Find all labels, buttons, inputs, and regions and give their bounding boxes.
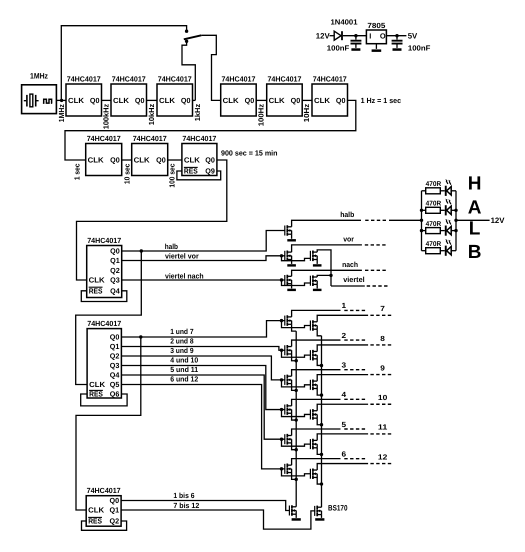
svg-text:RES: RES: [184, 167, 198, 176]
label nach (line): [342, 260, 358, 269]
wire U10 Q3 viertel-nach: [122, 279, 286, 281]
ground (C2): [393, 48, 402, 51]
svg-text:1kHz: 1kHz: [193, 104, 202, 122]
wire Q19 source: [321, 515, 323, 518]
svg-text:9: 9: [380, 363, 385, 372]
svg-text:8: 8: [380, 334, 385, 343]
counter U6 74HC4017: [312, 74, 348, 116]
node left rail pair 2: [295, 359, 298, 362]
svg-text:Q1: Q1: [110, 342, 120, 351]
svg-text:vor: vor: [343, 234, 354, 243]
wire LED right rail: [455, 191, 457, 251]
transistor Q19 BS170 (7 bis 12): [315, 506, 322, 517]
wire U1-U2 100kHz: [102, 99, 112, 101]
label 900 sec = 15 min: [221, 148, 278, 157]
svg-text:5: 5: [342, 420, 347, 429]
wire U10 Q1 viertel-vor: [122, 256, 286, 261]
svg-text:10kHz: 10kHz: [147, 104, 156, 126]
label 100nF (C1): [327, 43, 350, 52]
label hour 1: [342, 301, 347, 310]
svg-text:2: 2: [342, 331, 347, 340]
svg-text:Q0: Q0: [110, 156, 120, 165]
svg-text:L: L: [469, 218, 481, 239]
ground (Q5): [313, 289, 322, 291]
wire hour 6 dashed: [344, 458, 365, 460]
wire Q6 source to rail: [292, 324, 297, 331]
wire LED row B: [422, 250, 457, 252]
svg-text:CLK: CLK: [88, 506, 105, 515]
node LED right rail (L): [454, 229, 457, 232]
label 10kHz: [147, 104, 156, 126]
counter U10 74HC4017: [87, 236, 122, 298]
label 5 und 11: [170, 365, 198, 374]
svg-text:Q0: Q0: [181, 96, 191, 105]
wire hour 10 dashed: [370, 403, 391, 405]
wire Q8 source to rail: [292, 354, 297, 361]
capacitor C2 100nF: [392, 36, 403, 48]
svg-text:470R: 470R: [426, 241, 442, 248]
label 2 und 8: [170, 336, 193, 345]
transistor Q9 BS170 (hour 8): [310, 350, 317, 361]
svg-text:74HC4017: 74HC4017: [112, 74, 146, 83]
node gate branch pair 1: [280, 319, 283, 322]
resistor R2 470R: [426, 201, 442, 214]
svg-text:Q0: Q0: [90, 96, 100, 105]
wire osc to U1: [56, 99, 66, 101]
node gate branch pair 6: [280, 467, 283, 470]
counter U2 74HC4017: [111, 74, 147, 116]
capacitor C1 100nF: [351, 36, 362, 48]
node gate branch pair 2: [280, 349, 283, 352]
node LED right rail 12V tap: [454, 219, 457, 222]
label hour 4: [342, 390, 348, 399]
svg-text:CLK: CLK: [314, 96, 331, 105]
wire U12 Q2 to RES loop: [82, 521, 127, 530]
svg-text:6 und 12: 6 und 12: [170, 374, 198, 383]
resistor R3 470R: [426, 221, 442, 234]
label 7 bis 12: [173, 501, 199, 510]
LED D2 (H): [445, 179, 451, 196]
svg-text:CLK: CLK: [113, 96, 130, 105]
svg-text:Q1: Q1: [110, 506, 120, 515]
svg-text:5 und 11: 5 und 11: [170, 365, 198, 374]
wire Q17 drain hour 12 line: [317, 464, 368, 471]
wire U7-U8 10sec: [122, 159, 132, 161]
transistor Q6 BS170 (hour 1): [285, 315, 292, 326]
wire hour 8 dashed: [370, 344, 391, 346]
label hour 10: [378, 393, 387, 402]
wire LED row L: [422, 230, 457, 232]
svg-text:viertel: viertel: [343, 275, 365, 284]
wire Q19 drain to rail: [321, 506, 323, 508]
svg-text:4 und 10: 4 und 10: [170, 355, 198, 364]
wire hours 7-12 source rail: [321, 336, 323, 507]
node halb branch: [140, 249, 143, 252]
wire U11 Q6 to RES loop: [81, 394, 127, 406]
wire nach gate to Q5 gate: [282, 280, 311, 286]
svg-text:10: 10: [378, 393, 387, 402]
label letter L: [469, 218, 481, 239]
wire hour 1 dashed: [344, 309, 365, 311]
wire Q8 drain hour 2 line: [292, 340, 341, 347]
wire Q13 source to rail: [317, 418, 321, 425]
LED D4 (L): [445, 219, 451, 236]
counter U3 74HC4017: [157, 74, 193, 116]
wire Q5 source: [316, 284, 318, 288]
label hour 8: [380, 334, 385, 343]
label 1 Hz = 1 sec: [361, 96, 402, 105]
wire U12 Q0 1bis6: [121, 501, 290, 511]
wire U2-U3 10kHz: [147, 99, 158, 101]
svg-text:Q0: Q0: [245, 96, 255, 105]
node viertel rail junction: [329, 274, 332, 277]
wire gate link pair 1: [282, 321, 311, 328]
svg-text:CLK: CLK: [68, 96, 85, 105]
svg-text:Q1: Q1: [110, 256, 120, 265]
svg-text:7 bis 12: 7 bis 12: [173, 501, 199, 510]
svg-text:74HC4017: 74HC4017: [221, 74, 255, 83]
wire halb dashed: [365, 219, 386, 221]
svg-text:470R: 470R: [426, 181, 442, 188]
node left rail pair 5: [295, 448, 298, 451]
svg-text:11: 11: [378, 423, 387, 432]
wire vor gate to Q3 gate: [282, 256, 311, 261]
counter U4 74HC4017: [221, 74, 257, 116]
node nach gate branch: [280, 278, 283, 281]
label 6 und 12: [170, 374, 198, 383]
svg-text:74HC4017: 74HC4017: [182, 134, 216, 143]
label 100Hz: [257, 103, 266, 126]
svg-text:74HC4017: 74HC4017: [133, 134, 167, 143]
svg-text:Q5: Q5: [110, 380, 120, 389]
wire Q7 drain hour 7 line: [317, 315, 368, 322]
svg-text:B: B: [468, 242, 482, 263]
wire hour 5 dashed: [344, 428, 365, 430]
transistor Q16 BS170 (hour 6): [285, 464, 292, 475]
wire vor dashed: [365, 244, 386, 246]
svg-text:3: 3: [342, 361, 347, 370]
svg-text:74HC4017: 74HC4017: [87, 236, 121, 245]
wire hour 3 dashed: [344, 369, 365, 371]
counter U12 74HC4017: [86, 486, 121, 526]
wire U11 Q3 4 und 10: [121, 366, 285, 410]
svg-text:Q2: Q2: [110, 517, 120, 526]
wire gate link pair 4: [282, 410, 311, 417]
wire Q11 source to rail: [317, 389, 321, 396]
svg-text:CLK: CLK: [134, 156, 151, 165]
wire 1und7 to U12 CLK: [76, 337, 141, 510]
label 1 bis 6: [173, 491, 194, 500]
wire Q5 drain to viertel rail: [317, 275, 331, 277]
node vor gate branch: [280, 254, 283, 257]
wire Q18 drain to rail: [295, 506, 297, 508]
counter U8 74HC4017: [132, 134, 168, 176]
wire U3 Q0 out: [193, 99, 196, 101]
node left rail pair 4: [295, 418, 298, 421]
wire U12 Q1 7bis12: [121, 510, 315, 529]
counter U9 74HC4017: [182, 134, 217, 176]
label 12V input: [316, 31, 331, 40]
wire viertel dashed: [367, 285, 388, 287]
wire Q17 source to rail: [317, 477, 321, 484]
wire Q3 drain to viertel rail: [317, 250, 331, 286]
transistor Q17 BS170 (hour 12): [310, 468, 317, 479]
svg-text:CLK: CLK: [159, 96, 176, 105]
label letter H: [468, 173, 482, 194]
node gate branch pair 5: [280, 438, 283, 441]
svg-text:Q0: Q0: [156, 156, 166, 165]
wire Q4 source: [291, 284, 293, 289]
node LED right rail (A): [454, 209, 457, 212]
svg-text:1 sec: 1 sec: [72, 164, 81, 181]
svg-text:CLK: CLK: [269, 96, 286, 105]
wire hour 11 dashed: [370, 433, 391, 435]
svg-text:Q3: Q3: [110, 276, 120, 285]
counter U1 74HC4017: [66, 74, 102, 116]
svg-text:2 und 8: 2 und 8: [170, 336, 193, 345]
label letter A: [468, 197, 482, 218]
ground (U13): [372, 49, 382, 52]
svg-text:BS170: BS170: [328, 503, 348, 512]
wire hour 12 dashed: [370, 463, 391, 465]
wire LED row A: [422, 209, 457, 211]
label viertel vor: [165, 251, 199, 260]
wire 1MHz node to switch: [61, 26, 186, 101]
wire Q16 drain hour 6 line: [292, 459, 341, 466]
transistor Q12 BS170 (hour 4): [285, 404, 292, 415]
svg-text:1MHz: 1MHz: [57, 104, 66, 122]
wire 12V LED supply: [456, 219, 490, 221]
node right rail pair 4: [320, 423, 323, 426]
wire Q15 source to rail: [317, 448, 321, 455]
node LED rail halb tap: [420, 219, 423, 222]
wire U11 Q4 5 und 11: [121, 375, 285, 439]
wire gate link pair 3: [282, 380, 311, 387]
label BS170: [328, 503, 348, 512]
wire Q9 source to rail: [317, 359, 321, 366]
label hour 7: [380, 304, 385, 313]
svg-text:1: 1: [342, 301, 347, 310]
wire Q3 source: [316, 260, 318, 264]
label viertel (line): [343, 275, 365, 284]
svg-text:CLK: CLK: [88, 156, 105, 165]
svg-text:viertel nach: viertel nach: [165, 271, 204, 280]
node right rail pair 5: [320, 453, 323, 456]
wire U9 Q0 15min to U10 CLK: [77, 160, 227, 280]
svg-text:Q0: Q0: [110, 247, 120, 256]
ground (Q18): [292, 518, 301, 521]
svg-text:7: 7: [380, 304, 385, 313]
oscillator X1 1MHz: [22, 72, 57, 114]
wire Q1 source: [291, 234, 293, 239]
transistor Q4 BS170 (nach): [285, 275, 292, 286]
wire Q2 source: [291, 260, 293, 264]
wire U11 Q1 2 und 8: [121, 347, 285, 351]
wire hour 9 dashed: [370, 374, 391, 376]
svg-text:I: I: [369, 31, 371, 40]
wire halb to LED block: [389, 219, 422, 221]
label vor (line): [343, 234, 354, 243]
node left rail pair 3: [295, 389, 298, 392]
label 100nF (C2): [408, 43, 431, 52]
svg-text:A: A: [468, 197, 482, 218]
wire gate link pair 5: [282, 439, 311, 446]
wire Q9 drain hour 8 line: [317, 345, 368, 352]
wire hours 1-6 source rail: [295, 331, 297, 507]
wire Q14 source to rail: [292, 443, 297, 450]
label 100kHz: [101, 104, 110, 130]
wire halb to U11 CLK: [76, 251, 142, 385]
label 10Hz: [302, 103, 311, 122]
svg-text:halb: halb: [165, 242, 179, 251]
ground (Q3): [313, 264, 322, 266]
node LED rail (L): [420, 229, 423, 232]
svg-text:10Hz: 10Hz: [302, 103, 311, 122]
LED D3 (A): [445, 199, 451, 216]
svg-text:halb: halb: [340, 210, 355, 219]
label hour 12: [378, 452, 387, 461]
label halb (line): [340, 210, 355, 219]
wire U10 Q0 halb to Q1 gate: [122, 231, 286, 252]
transistor Q8 BS170 (hour 2): [285, 345, 292, 356]
ground (Q2): [287, 264, 296, 266]
transistor Q3 BS170 (viertel a): [310, 251, 317, 262]
node right rail pair 2: [320, 364, 323, 367]
wire Q15 drain hour 11 line: [317, 434, 368, 441]
wire LED row H: [422, 190, 457, 192]
label letter B: [468, 242, 482, 263]
wire U13 to 5V: [386, 35, 406, 37]
svg-text:5V: 5V: [408, 31, 418, 40]
svg-text:Q0: Q0: [110, 333, 120, 342]
svg-text:CLK: CLK: [184, 156, 201, 165]
svg-text:74HC4017: 74HC4017: [87, 486, 121, 495]
transistor Q11 BS170 (hour 9): [310, 380, 317, 391]
wire viertel line: [331, 285, 365, 287]
node gate branch pair 4: [280, 408, 283, 411]
svg-text:74HC4017: 74HC4017: [313, 74, 347, 83]
label viertel nach: [165, 271, 204, 280]
wire hour 4 dashed: [344, 398, 365, 400]
label 3 und 9: [170, 346, 193, 355]
svg-text:1 bis 6: 1 bis 6: [173, 491, 194, 500]
wire switch to U4 CLK: [201, 35, 220, 100]
wire Q7 source to rail: [317, 329, 321, 336]
wire D1 to U13: [343, 35, 367, 37]
svg-text:470R: 470R: [426, 221, 442, 228]
svg-text:Q3: Q3: [110, 361, 120, 370]
wire Q2 drain to vor line: [292, 245, 362, 252]
ground (C1): [351, 48, 360, 51]
svg-text:100Hz: 100Hz: [257, 103, 266, 126]
switch S1 lever: [184, 35, 202, 39]
svg-text:74HC4017: 74HC4017: [267, 74, 301, 83]
wire Q11 drain hour 9 line: [317, 375, 368, 382]
svg-text:1 Hz = 1 sec: 1 Hz = 1 sec: [361, 96, 402, 105]
ground (Q4): [287, 289, 296, 291]
node left rail pair 6: [295, 478, 298, 481]
svg-text:Q4: Q4: [110, 286, 120, 295]
wire U11 Q2 3 und 9: [121, 356, 285, 380]
transistor Q7 BS170 (hour 7): [310, 320, 317, 331]
svg-text:74HC4017: 74HC4017: [87, 134, 121, 143]
svg-text:Q2: Q2: [110, 352, 120, 361]
label 4 und 10: [170, 355, 198, 364]
wire hour 7 dashed: [370, 314, 391, 316]
transistor Q15 BS170 (hour 11): [310, 439, 317, 450]
wire Q18 source: [295, 514, 297, 518]
label halb (Q0): [165, 242, 179, 251]
wire U4-U5 100Hz: [256, 99, 267, 101]
label hour 6: [342, 449, 347, 458]
counter U5 74HC4017: [267, 74, 303, 116]
label 1 und 7: [170, 327, 193, 336]
label hour 5: [342, 420, 347, 429]
wire Q10 source to rail: [292, 384, 297, 391]
svg-text:Q0: Q0: [110, 496, 120, 505]
label hour 2: [342, 331, 347, 340]
svg-text:12V: 12V: [316, 31, 331, 40]
label hour 11: [378, 423, 387, 432]
transistor Q10 BS170 (hour 3): [285, 375, 292, 386]
transistor Q18 BS170 (1 bis 6): [289, 505, 296, 516]
svg-text:Q0: Q0: [205, 156, 215, 165]
svg-text:74HC4017: 74HC4017: [67, 74, 101, 83]
wire Q12 source to rail: [292, 413, 297, 420]
wire U13 ground pin: [375, 44, 377, 49]
svg-text:O: O: [380, 31, 386, 40]
label hour 3: [342, 361, 347, 370]
svg-text:100kHz: 100kHz: [101, 104, 110, 130]
wire Q14 drain hour 5 line: [292, 429, 341, 436]
node LED rail (A): [420, 209, 423, 212]
wire 12V to D1: [330, 35, 335, 37]
svg-text:100nF: 100nF: [408, 43, 431, 52]
wire U11 Q0 1 und 7: [121, 321, 285, 337]
label 12V (LED supply): [491, 216, 506, 225]
wire U8-U9 100sec: [168, 159, 182, 161]
svg-text:Q0: Q0: [291, 96, 301, 105]
svg-text:Q0: Q0: [336, 96, 346, 105]
svg-text:CLK: CLK: [89, 276, 106, 285]
wire Q13 drain hour 10 line: [317, 404, 368, 411]
svg-text:H: H: [468, 173, 482, 194]
svg-text:CLK: CLK: [89, 380, 106, 389]
svg-text:12V: 12V: [491, 216, 506, 225]
svg-text:CLK: CLK: [223, 96, 240, 105]
wire gate link pair 2: [282, 350, 311, 357]
transistor Q14 BS170 (hour 5): [285, 434, 292, 445]
wire nach dashed: [365, 269, 386, 271]
svg-text:6: 6: [342, 449, 347, 458]
counter U11 74HC4017: [87, 319, 121, 399]
svg-text:viertel vor: viertel vor: [165, 251, 199, 260]
wire Q10 drain hour 3 line: [292, 370, 341, 377]
svg-text:RES: RES: [89, 390, 103, 399]
wire LED left rail: [421, 191, 423, 251]
label 5V output: [408, 31, 418, 40]
node C2 junction: [395, 34, 398, 37]
svg-text:Q4: Q4: [110, 371, 120, 380]
resistor R1 470R: [426, 181, 442, 194]
node right rail pair 6: [320, 482, 323, 485]
transistor Q2 BS170 (vor): [285, 251, 292, 262]
svg-text:1MHz: 1MHz: [30, 72, 48, 81]
label 1kHz: [193, 104, 202, 122]
wire hour 2 dashed: [344, 339, 365, 341]
svg-text:nach: nach: [342, 260, 358, 269]
svg-text:470R: 470R: [426, 201, 442, 208]
